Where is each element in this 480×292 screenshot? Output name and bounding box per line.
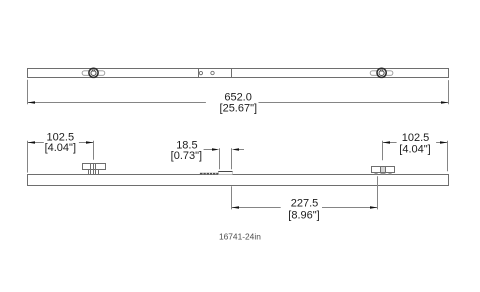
left mount ears (top view) — [82, 71, 105, 76]
dimension 18.5 left leader and arrow — [204, 148, 220, 150]
top view bar body — [28, 69, 449, 78]
dimension 227.5 extension lines — [232, 176, 378, 209]
left mount inner circle (top view) — [91, 70, 96, 75]
middle connector dashed label strip — [200, 173, 218, 174]
svg-text:[8.96"]: [8.96"] — [288, 210, 319, 222]
dimension 18.5 extension lines — [220, 148, 232, 169]
dimension 652.0 right arrow — [441, 101, 449, 103]
left bracket head (side view) — [83, 164, 106, 170]
svg-text:102.5: 102.5 — [402, 132, 430, 144]
dimension 102.5 left extension lines — [28, 141, 94, 173]
right mount inner circle (top view) — [379, 70, 384, 75]
dimension 652.0 left arrow — [28, 101, 36, 103]
dimension 227.5 arrows — [232, 206, 240, 208]
svg-text:[4.04"]: [4.04"] — [399, 143, 430, 155]
svg-text:227.5: 227.5 — [291, 198, 319, 210]
right mount keyway notch — [381, 70, 383, 71]
dimension 227.5 line — [232, 207, 378, 209]
svg-text:[25.67"]: [25.67"] — [220, 102, 258, 114]
svg-text:16741-24in: 16741-24in — [219, 232, 261, 242]
top view centre section lines — [199, 69, 232, 77]
right bracket head (side view) — [372, 167, 395, 173]
left mount outer ring (top view) — [89, 68, 98, 77]
right mount ears (top view) — [370, 71, 393, 76]
dimension 102.5 left line — [28, 142, 94, 144]
right mount outer ring (top view) — [377, 68, 386, 77]
top view small hole 2 — [211, 71, 214, 74]
right bracket centre band — [381, 167, 386, 173]
middle connector raised strip (side view) — [218, 172, 232, 175]
dimension 652.0 line — [28, 102, 449, 104]
dimension 102.5 right extension lines — [383, 141, 448, 172]
dimension 102.5 right line — [383, 142, 448, 144]
dimension 652.0 extension lines — [28, 80, 449, 104]
svg-text:[0.73"]: [0.73"] — [171, 150, 202, 162]
dimension 102.5 left arrows — [28, 141, 36, 143]
left mount keyway notch — [93, 70, 95, 71]
lower view bar body — [28, 175, 449, 186]
dimension 102.5 right arrows — [383, 141, 391, 143]
top view small hole 1 — [199, 71, 202, 74]
dimension 18.5 right leader and arrow — [232, 148, 244, 150]
right bracket feet — [375, 173, 392, 174]
left bracket stem lines — [89, 164, 99, 175]
svg-text:[4.04"]: [4.04"] — [45, 142, 76, 154]
